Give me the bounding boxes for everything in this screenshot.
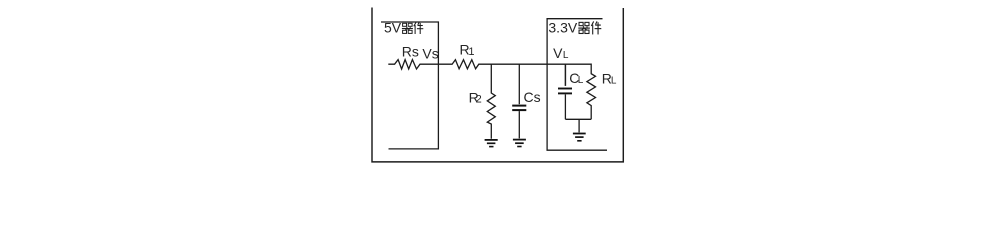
svg-text:Cs: Cs — [524, 89, 541, 105]
svg-text:L: L — [611, 76, 617, 87]
svg-text:2: 2 — [476, 94, 482, 106]
svg-text:L: L — [578, 75, 584, 86]
svg-text:V: V — [553, 45, 563, 61]
svg-text:1: 1 — [468, 46, 474, 58]
svg-text:Rs: Rs — [402, 43, 419, 59]
svg-text:L: L — [563, 50, 569, 61]
svg-text:5V: 5V — [384, 20, 402, 36]
svg-text:3.3V: 3.3V — [548, 20, 577, 36]
svg-text:Vs: Vs — [422, 46, 438, 62]
